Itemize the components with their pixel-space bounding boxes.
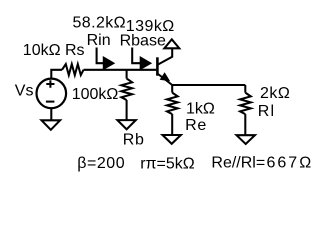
svg-text:Rl: Rl — [258, 103, 276, 120]
svg-text:1kΩ: 1kΩ — [186, 100, 215, 117]
svg-text:Vs: Vs — [15, 82, 34, 99]
svg-text:Re: Re — [185, 117, 207, 134]
svg-text:10kΩ Rs: 10kΩ Rs — [23, 42, 85, 59]
svg-text:rπ=5kΩ: rπ=5kΩ — [140, 156, 195, 173]
svg-text:Rbase: Rbase — [120, 33, 166, 50]
svg-text:58.2kΩ: 58.2kΩ — [73, 14, 127, 31]
svg-text:Rin: Rin — [87, 32, 111, 49]
svg-text:β=200: β=200 — [77, 155, 125, 172]
svg-text:100kΩ: 100kΩ — [72, 86, 119, 103]
svg-text:Rb: Rb — [123, 132, 145, 149]
svg-text:2kΩ: 2kΩ — [260, 85, 290, 102]
svg-text:Re//Rl=: Re//Rl= — [211, 155, 265, 172]
svg-text:667Ω: 667Ω — [267, 155, 314, 172]
